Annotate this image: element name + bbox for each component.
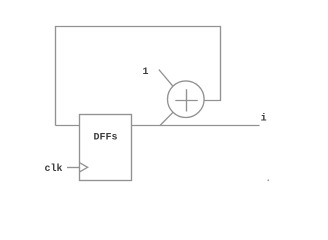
plus sign of adder bbox=[175, 100, 198, 102]
wire feedback loop (left, top, right sides) bbox=[56, 27, 221, 126]
svg-text:1: 1 bbox=[143, 67, 149, 78]
wire feedback tap diagonal bbox=[160, 112, 173, 125]
wire input to DFFs bbox=[56, 125, 80, 127]
svg-text:DFFs: DFFs bbox=[94, 133, 118, 144]
adder U1 (summing junction circle) bbox=[168, 81, 205, 118]
wire clk arrow line bbox=[67, 167, 80, 169]
wire constant-1 input diagonal bbox=[159, 70, 173, 87]
block DFFs bbox=[80, 115, 132, 181]
svg-text:clk: clk bbox=[45, 163, 63, 175]
wire output horizontal bbox=[132, 125, 260, 127]
svg-text:i: i bbox=[261, 112, 267, 124]
speck artifact bbox=[268, 180, 270, 182]
clock wedge on DFFs bbox=[80, 163, 88, 172]
